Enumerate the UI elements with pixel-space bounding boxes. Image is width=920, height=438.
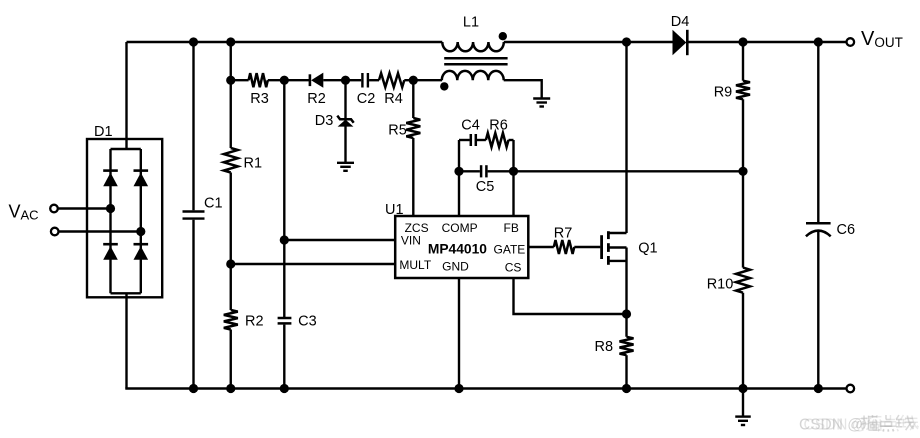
wire R3 to node [268,79,285,81]
wire top rail middle segment (L1 to D4) [504,41,673,43]
wire top rail right segment (D4 to Vout) [688,41,847,43]
wire R5 to ZCS pin [412,138,414,216]
node C6 bottom [814,384,823,393]
zener D3 triangle [338,120,354,127]
svg-text:GATE: GATE [494,243,526,257]
wire D3 to ground [344,126,346,162]
capacitor C5 plates [480,165,483,177]
wire R1 to MULT node [230,173,232,311]
wire to R3 [231,79,249,81]
svg-text:R1: R1 [244,156,263,172]
wire node to diode R2 [284,79,309,81]
transistor Q1 channel segments [607,231,610,239]
resistor R1 [224,148,238,173]
diode R2 cathode bar [309,74,312,86]
wire Q1 source down [625,248,627,337]
node CS/R8 junction [622,309,631,318]
svg-text:R10: R10 [707,277,734,293]
svg-text:U1: U1 [385,202,404,218]
resistor R2 lower [224,310,238,330]
svg-text:R8: R8 [595,339,614,355]
inductor L1 secondary winding [442,71,504,80]
wire bridge inner bottom [111,292,141,294]
wire D2 node down to VIN node [283,80,285,317]
wire C5 left [459,170,480,172]
op-amp U1 MP44010 body [395,216,528,278]
wire ZCS node to L1 secondary [413,79,442,81]
svg-text:Q1: Q1 [638,240,657,256]
node Q1 drain top [622,37,631,46]
svg-text:L1: L1 [463,14,479,30]
wire R7 to gate [574,246,600,248]
svg-text:R7: R7 [554,225,573,241]
node C1 top [189,37,198,46]
svg-text:VOUT: VOUT [861,28,903,50]
L1 core lines [444,57,507,60]
L1 secondary phase dot [440,82,448,90]
svg-text:COMP: COMP [442,221,478,235]
capacitor C4 plates [470,134,473,146]
wire bridge right branch [140,149,142,293]
svg-text:MP44010: MP44010 [428,241,487,256]
wire MULT node to pin [231,263,395,265]
capacitor C6 top plate [806,222,831,225]
node divider top [226,37,235,46]
capacitor C2 plates [361,73,363,88]
node C1 bottom [189,384,198,393]
node R3 row left [226,76,235,85]
capacitor C3 bottom lead [283,325,285,389]
inductor L1 primary winding [442,42,504,51]
zener D3 cathode bar [337,116,353,123]
ground symbol main [735,415,751,417]
svg-text:D1: D1 [94,124,113,140]
capacitor C3 plates [278,317,292,320]
capacitor C1 bottom lead [192,220,194,389]
wire R2 to ground rail [230,330,232,389]
node R3/D2 junction [280,76,289,85]
wire R4 to ZCS node [404,79,413,81]
svg-text:R2: R2 [245,313,264,329]
resistor R9 [736,81,750,100]
wire Q1 drain to top rail [625,42,627,233]
wire FB pin up [512,140,514,216]
diode D1 upper-left [103,173,118,187]
node C6 top [814,37,823,46]
wire node to C2 [346,79,362,81]
node R9 top [738,37,747,46]
capacitor C1 top lead [192,42,194,210]
wire VAC top lead [58,207,110,209]
wire rail to R9 [742,42,744,81]
node divider bottom [226,384,235,393]
resistor R8 [620,337,634,355]
diode D4 cathode bar [686,30,689,55]
capacitor C1 plates [183,210,205,212]
svg-text:C3: C3 [298,313,317,329]
wire FB feedback line [514,170,744,172]
node MULT junction [226,259,235,268]
svg-text:C6: C6 [837,222,856,238]
ground symbol under D3 [337,162,354,164]
terminal VOUT [847,38,855,46]
wire bottom ground rail [125,387,846,389]
wire node to D3 [344,80,346,119]
node bridge left junction [106,204,115,213]
svg-text:CSDN @: CSDN @ [804,417,868,434]
node R9/R10 FB junction [738,167,747,176]
diode D1 lower-left [103,246,118,260]
wire left rail down to bridge [125,42,127,149]
wire diode to D3 node [323,79,345,81]
svg-text:D3: D3 [315,113,334,129]
transistor Q1 gate bar [600,235,603,259]
terminal VAC top [50,205,58,213]
wire rail to ground symbol [742,389,744,417]
capacitor C6 bottom lead [817,231,819,389]
ground symbol under L1 secondary [533,97,550,99]
wire R6 to right [509,139,514,141]
wire C2 to R4 [369,79,379,81]
transistor Q1 source stub [608,260,626,262]
resistor R10 [736,268,750,293]
L1 primary phase dot [499,32,507,40]
resistor R3 [249,73,268,87]
wire R10 to rail [742,293,744,389]
node VIN junction [280,235,289,244]
svg-text:R9: R9 [714,84,733,100]
wire COMP pin up [458,140,460,216]
diode D4 triangle [673,30,687,55]
wire divider from top rail to R1 [230,42,232,148]
wire bridge bottom stub to ground rail [125,293,127,388]
node D3 junction [341,76,350,85]
svg-text:R4: R4 [384,91,403,107]
terminal VAC bottom [51,228,59,236]
wire CS pin down and right [514,278,627,314]
svg-text:R2: R2 [307,91,326,107]
svg-text:GND: GND [442,259,469,273]
node ZCS/R5 junction [409,76,418,85]
wire C5 right [488,170,514,172]
svg-text:VIN: VIN [401,234,421,248]
svg-text:R6: R6 [489,118,508,134]
watermark char qian [896,415,914,430]
watermark char zhai [861,415,877,430]
wire bridge inner top [111,148,141,150]
wire R8 to rail [625,355,627,388]
resistor R5 [406,118,420,138]
wire secondary to ground [504,80,542,98]
resistor R4 [379,73,404,87]
capacitor C6 curved plate [806,231,831,237]
watermark char dian [878,415,894,432]
transistor Q1 body stub [608,246,626,248]
diode R2 triangle [311,73,323,88]
transistor Q1 drain stub [608,232,626,234]
node R10 bottom [738,384,747,393]
wire GND pin to rail [458,278,460,389]
wire C4 row left [459,139,470,141]
svg-text:VAC: VAC [9,202,39,223]
wire node to R5 [412,80,414,118]
svg-text:FB: FB [504,221,519,235]
wire bridge left branch [109,149,111,293]
resistor R6 [486,133,509,147]
node R8 bottom [622,384,631,393]
diode D1 lower-right [134,246,149,260]
node FB/C5 right [509,167,518,176]
wire GATE pin to R7 [528,246,554,248]
svg-text:MULT: MULT [399,258,431,272]
svg-text:C2: C2 [357,91,376,107]
node COMP/C5 left [454,167,463,176]
svg-text:C5: C5 [476,179,495,195]
svg-text:CS: CS [505,261,522,275]
svg-text:R5: R5 [388,123,407,139]
diode D1 upper-right [134,173,149,187]
svg-text:C4: C4 [461,118,480,134]
terminal bottom right [847,385,855,393]
node GND rail [454,384,463,393]
svg-text:C1: C1 [204,196,223,212]
node C3 bottom [280,384,289,393]
wire VIN node to pin [284,239,395,241]
bridge rectifier D1 box [87,139,162,297]
node bridge right junction [136,227,145,236]
capacitor C6 top lead [817,42,819,223]
svg-text:R3: R3 [250,91,269,107]
resistor R7 [554,240,575,254]
wire top rail left segment [127,41,443,43]
wire C4 to R6 [477,139,486,141]
wire VAC bottom lead [59,230,141,232]
wire R9 to FB node [742,99,744,267]
svg-text:D4: D4 [671,14,690,30]
